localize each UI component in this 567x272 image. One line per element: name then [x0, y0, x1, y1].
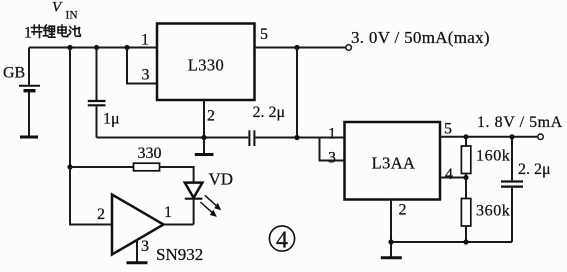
- svg-text:5: 5: [260, 26, 268, 43]
- wire L3AA pin2 down: [390, 200, 392, 243]
- label 1节锂电池 (1-cell lithium battery): [24, 25, 80, 42]
- terminal 3.0V output circle: [346, 45, 352, 51]
- svg-text:VD: VD: [209, 170, 234, 189]
- svg-text:2: 2: [399, 202, 407, 219]
- capacitor 1u lead bottom: [96, 106, 98, 137]
- node junction on rail for SN932 branch: [67, 45, 72, 50]
- svg-text:3: 3: [141, 238, 149, 255]
- svg-text:1: 1: [328, 126, 336, 143]
- svg-text:3: 3: [142, 67, 150, 84]
- terminal 1.8V output circle: [538, 134, 544, 140]
- svg-text:4: 4: [276, 227, 288, 253]
- svg-text:2: 2: [97, 206, 105, 223]
- svg-text:3: 3: [328, 150, 336, 167]
- capacitor C 2.2u output lead top: [511, 137, 513, 181]
- svg-text:1. 8V / 5mA: 1. 8V / 5mA: [477, 114, 563, 131]
- svg-text:GB: GB: [3, 65, 25, 82]
- capacitor C 1u lead top: [96, 48, 98, 101]
- svg-text:360k: 360k: [476, 203, 510, 220]
- ground below L330 pin2: [195, 138, 214, 155]
- svg-text:1μ: 1μ: [103, 111, 120, 128]
- wire 3V column down: [296, 48, 298, 138]
- node junction on rail for 1u cap: [94, 45, 99, 50]
- LED light arrows: [200, 195, 221, 217]
- wire L3AA pin3 notch: [320, 138, 345, 161]
- svg-text:L330: L330: [188, 55, 224, 74]
- wire VIN top rail: [29, 47, 157, 49]
- ground below battery: [20, 136, 38, 139]
- resistor R 160k: [461, 137, 470, 178]
- svg-text:2: 2: [207, 108, 215, 125]
- ground below SN932: [127, 261, 148, 264]
- resistor R 360k: [461, 178, 470, 243]
- wire amp output: [164, 224, 194, 226]
- node junction 3V output column: [294, 45, 299, 50]
- transistor amp SN932 triangle: [112, 195, 164, 255]
- node VIN label: [52, 0, 78, 22]
- svg-text:160k: 160k: [476, 148, 510, 165]
- svg-text:1: 1: [24, 25, 32, 42]
- op-amp regulator U2 L3AA box: [345, 122, 441, 200]
- node junction pin2 ground: [201, 135, 206, 140]
- node junction 3V to L3AA input: [294, 135, 299, 140]
- capacitor 2.2u output plates: [501, 182, 523, 187]
- wire L3AA pin5 output: [440, 136, 538, 138]
- svg-text:V: V: [52, 0, 63, 16]
- svg-text:L3AA: L3AA: [372, 154, 416, 173]
- svg-text:SN932: SN932: [156, 245, 203, 264]
- ground below L3AA pin2: [381, 242, 402, 258]
- node junction 160k top: [463, 134, 468, 139]
- wire L330 pin2 down: [203, 100, 205, 138]
- svg-text:2. 2μ: 2. 2μ: [253, 104, 286, 121]
- svg-text:3. 0V / 50mA(max): 3. 0V / 50mA(max): [351, 28, 490, 47]
- battery GB plates: [19, 86, 40, 91]
- capacitor 1u plates: [88, 101, 106, 105]
- capacitor 2.2u output lead bottom: [511, 188, 513, 242]
- wire L3AA pin4: [440, 177, 466, 179]
- wire amp input: [70, 167, 112, 225]
- wire LED cathode down to amp output: [193, 199, 195, 225]
- op-amp regulator U1 L330 box: [157, 24, 255, 101]
- node junction cap 2.2u top: [509, 134, 514, 139]
- wire SN932 pin3 down: [136, 240, 138, 262]
- capacitor 2.2u series plates: [249, 130, 254, 146]
- wire bottom bus: [391, 241, 512, 243]
- svg-text:1: 1: [141, 32, 149, 49]
- wire resistor to LED: [160, 167, 194, 182]
- LED VD diode: [185, 183, 203, 199]
- node junction on rail for pin3 notch: [124, 45, 129, 50]
- svg-text:1: 1: [164, 204, 172, 221]
- figure number circled 4: [269, 226, 294, 253]
- resistor R 330: [134, 163, 160, 171]
- svg-text:2. 2μ: 2. 2μ: [518, 161, 551, 178]
- wire to resistor 330: [70, 166, 134, 168]
- node junction 360k bottom: [463, 239, 468, 244]
- svg-text:5: 5: [444, 121, 452, 138]
- svg-text:IN: IN: [66, 10, 79, 22]
- wire battery bottom lead: [28, 92, 30, 136]
- node junction pin2 bottom: [388, 239, 393, 244]
- node junction feedback branch: [67, 164, 72, 169]
- wire ground bus middle: [97, 137, 345, 139]
- wire L330 pin3 notch: [127, 48, 157, 84]
- wire branch down to SN932 section: [69, 48, 71, 168]
- svg-text:330: 330: [138, 145, 162, 162]
- svg-text:4: 4: [445, 166, 453, 183]
- node junction pin4 divider: [463, 175, 468, 180]
- wire battery top lead: [28, 48, 30, 85]
- wire L330 pin5 output: [255, 47, 346, 49]
